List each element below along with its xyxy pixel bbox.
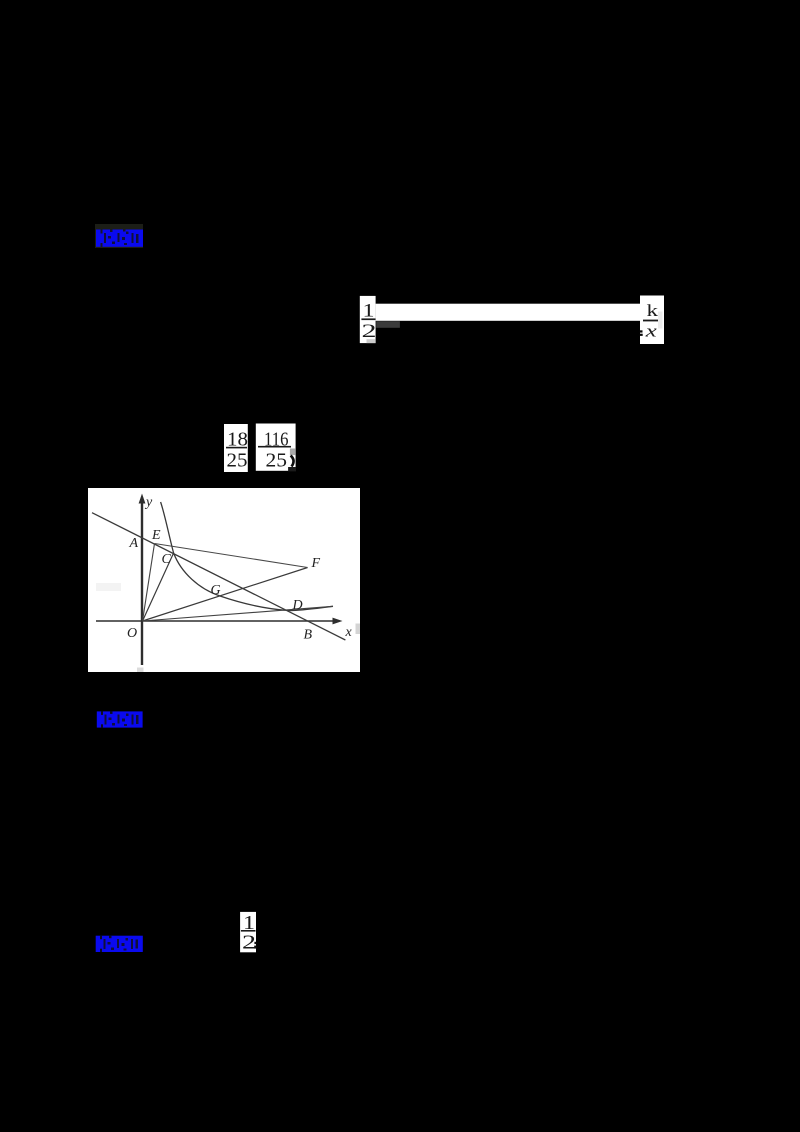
svg-text:C: C (162, 552, 172, 567)
gray artifacts in figure (96, 583, 360, 672)
fraction 18/25 formula box (224, 424, 248, 472)
svg-text:A: A (129, 536, 139, 551)
fraction 1/2 formula box (second) (240, 912, 256, 953)
hyperbola curve (161, 502, 333, 611)
blue label 1 (answer tag) (95, 224, 143, 248)
svg-text:F: F (311, 556, 321, 571)
segment E-F (155, 544, 308, 568)
x-axis (96, 618, 343, 625)
segment O-E (143, 544, 155, 622)
svg-text:k: k (647, 301, 660, 320)
svg-text:D: D (292, 598, 303, 613)
fraction 1/2 formula box (360, 296, 377, 343)
blue label 3 (note tag) (96, 936, 143, 952)
svg-text:E: E (151, 528, 161, 543)
fraction k/x formula box (640, 296, 664, 345)
comma artifact after 116/25 (288, 449, 296, 472)
svg-text:x: x (644, 322, 658, 341)
svg-text:25: 25 (227, 449, 248, 471)
svg-text:G: G (211, 583, 221, 598)
svg-text:O: O (127, 626, 137, 641)
y-axis (139, 494, 146, 666)
segment O-F (143, 568, 308, 622)
svg-text:y: y (144, 495, 153, 510)
fraction 116/25 formula box (256, 424, 296, 472)
long white equation bar (376, 304, 640, 321)
line AB (92, 513, 345, 640)
svg-text:25: 25 (266, 449, 288, 471)
figure white box (88, 488, 360, 672)
figure labels (127, 495, 353, 643)
svg-text:2: 2 (242, 931, 256, 953)
blue label 2 (analysis tag) (97, 711, 143, 727)
dark gray underline artifact (376, 321, 400, 328)
svg-text:x: x (345, 625, 353, 640)
ray O-D extended (143, 606, 334, 621)
segment O-C (143, 553, 174, 621)
svg-text:B: B (304, 628, 313, 643)
svg-text:2: 2 (362, 322, 377, 342)
